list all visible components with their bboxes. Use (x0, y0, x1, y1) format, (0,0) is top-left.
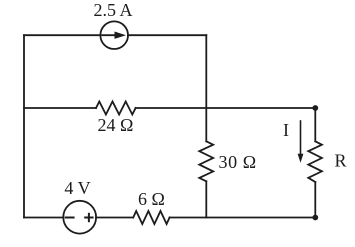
svg-text:I: I (283, 120, 289, 140)
wire right branch lower (R to bottom node) (314, 182, 316, 218)
wire bottom right segment (170, 217, 316, 219)
current arrow I head (298, 154, 304, 163)
resistor 24 ohm zigzag (96, 102, 136, 115)
wire right-middle vertical lower (30ohm to bottom wire) (205, 181, 207, 217)
resistor 30 ohm zigzag (199, 141, 213, 181)
voltage source plus sign horizontal (85, 217, 92, 219)
current source arrowhead (115, 32, 127, 39)
resistor R zigzag (308, 141, 322, 182)
wire top left segment (24, 34, 101, 36)
voltage source minus sign (66, 217, 74, 219)
svg-text:30 Ω: 30 Ω (219, 152, 257, 172)
wire bottom left segment (24, 217, 63, 219)
wire middle right segment (136, 107, 316, 109)
wire left vertical (23, 35, 25, 217)
current source circle (100, 21, 128, 49)
node dot top right (312, 105, 318, 111)
wire middle left segment (24, 107, 96, 109)
wire right branch upper (node to R) (314, 108, 316, 141)
current arrow I shaft (300, 121, 302, 155)
voltage source circle (63, 201, 96, 234)
voltage source plus sign vertical (88, 214, 90, 221)
wire right-middle vertical upper (top wire to 30ohm) (205, 35, 207, 141)
wire bottom middle segment (96, 217, 133, 219)
svg-text:24 Ω: 24 Ω (98, 115, 134, 135)
svg-text:R: R (335, 151, 347, 171)
svg-text:4 V: 4 V (64, 178, 90, 198)
current source arrow shaft (103, 34, 120, 36)
wire top right segment (128, 34, 206, 36)
svg-text:6 Ω: 6 Ω (138, 189, 165, 209)
node dot bottom right (312, 215, 318, 221)
svg-text:2.5 A: 2.5 A (93, 0, 132, 20)
resistor 6 ohm zigzag (133, 211, 169, 224)
